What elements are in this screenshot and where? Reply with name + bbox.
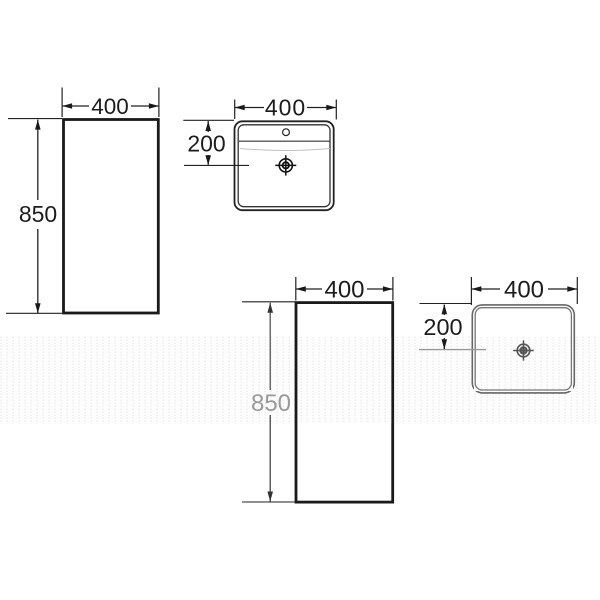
arrowhead down xyxy=(205,155,211,165)
arrowhead down xyxy=(442,339,448,349)
svg-text:850: 850 xyxy=(19,201,57,227)
faucet hole cross xyxy=(275,155,296,175)
extension line left (top-middle 400 dim) xyxy=(234,100,236,120)
arrowhead up xyxy=(442,304,448,314)
extension line top (850 dim) xyxy=(8,118,62,120)
dimension line 200 xyxy=(207,121,209,132)
arrowhead left xyxy=(471,286,481,292)
svg-text:200: 200 xyxy=(187,131,225,157)
svg-text:400: 400 xyxy=(324,277,364,304)
bowl front edge (faint) xyxy=(240,149,330,151)
arrowhead up xyxy=(205,121,211,131)
overflow hole xyxy=(283,129,290,136)
extension line top (bottom 200 dim) xyxy=(420,303,472,305)
watermark dotted band inside basin xyxy=(474,337,573,391)
arrowhead down xyxy=(267,492,273,502)
extension line bottom (850 dim) xyxy=(6,312,62,314)
arrowhead right xyxy=(149,103,159,109)
arrowhead right xyxy=(383,286,393,292)
vessel basin inner rim xyxy=(475,308,571,390)
basin outer rim xyxy=(235,121,334,210)
deck line xyxy=(239,140,330,142)
svg-text:400: 400 xyxy=(265,95,306,121)
extension line bottom (bottom 850 dim) xyxy=(242,501,295,503)
svg-text:850: 850 xyxy=(251,390,291,417)
arrowhead left xyxy=(296,286,306,292)
pedestal front-view rectangle (bottom) xyxy=(296,303,393,503)
dimension line 200 (bottom) xyxy=(443,305,445,316)
arrowhead up xyxy=(35,120,41,130)
vessel basin outer rim xyxy=(472,305,574,393)
svg-text:400: 400 xyxy=(504,277,544,304)
extension line right (bottom-right 400 dim) xyxy=(576,277,578,304)
arrowhead left xyxy=(62,103,72,109)
arrowhead right xyxy=(326,105,336,111)
dimension line 400 (top-left) xyxy=(62,105,89,107)
extension line left (bottom 400 dim) xyxy=(295,277,297,301)
extension line bottom (200 dim) xyxy=(184,164,249,166)
faucet hole cross (bottom) xyxy=(513,340,534,360)
arrowhead left xyxy=(235,105,245,111)
arrowhead up xyxy=(267,303,273,313)
extension line top (200 dim) xyxy=(183,119,234,121)
extension line top (bottom 850 dim) xyxy=(242,301,295,303)
dimension line 850 (bottom) xyxy=(269,303,271,390)
dimension line 400 (bottom-middle) xyxy=(296,288,322,290)
arrowhead right xyxy=(567,286,577,292)
dimension line 400 (top-middle) xyxy=(235,107,264,109)
dimension line 400 (bottom-right) xyxy=(471,288,500,290)
watermark dotted band xyxy=(0,336,600,424)
dimension line 850 (top-left) xyxy=(37,120,39,200)
extension line left (bottom-right 400 dim) xyxy=(470,277,472,305)
extension line right (bottom 400 dim) xyxy=(392,277,394,301)
pedestal front-view rectangle xyxy=(64,120,159,314)
svg-text:400: 400 xyxy=(91,94,129,119)
extension line right (400 dim) xyxy=(158,88,160,118)
extension line left (400 dim) xyxy=(61,88,63,118)
extension line right (top-middle 400 dim) xyxy=(335,100,337,120)
basin inner rim xyxy=(238,125,330,207)
arrowhead down xyxy=(35,303,41,313)
extension line bottom (bottom 200 dim, faded) xyxy=(419,349,486,351)
svg-text:200: 200 xyxy=(423,314,462,340)
watermark dotted band inside rectangle xyxy=(298,337,392,423)
